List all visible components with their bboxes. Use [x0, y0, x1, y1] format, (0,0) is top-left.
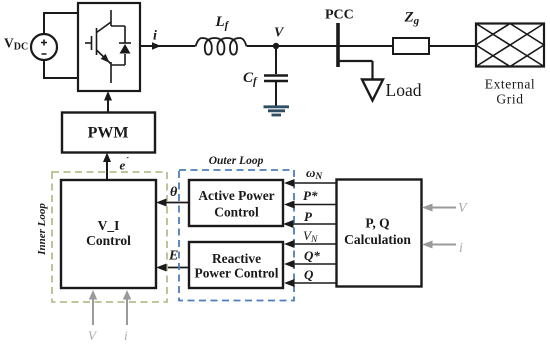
svg-text:Q: Q	[304, 267, 314, 282]
svg-text:External: External	[485, 77, 536, 92]
svg-text:Power Control: Power Control	[195, 266, 279, 281]
svg-text:Inner Loop: Inner Loop	[36, 203, 48, 256]
svg-text:P*: P*	[303, 188, 318, 203]
svg-text:Calculation: Calculation	[344, 232, 411, 247]
svg-text:Reactive: Reactive	[212, 251, 261, 266]
svg-text:Outer Loop: Outer Loop	[209, 155, 264, 167]
svg-text:P, Q: P, Q	[365, 216, 389, 231]
svg-text:Control: Control	[86, 233, 131, 248]
svg-text:θ: θ	[170, 185, 178, 200]
svg-text:V_I: V_I	[98, 218, 120, 233]
svg-text:P: P	[304, 209, 313, 224]
svg-text:E: E	[168, 249, 178, 264]
svg-text:i: i	[459, 241, 463, 256]
svg-text:Control: Control	[214, 205, 259, 220]
svg-text:Active Power: Active Power	[198, 188, 274, 203]
svg-text:i: i	[153, 29, 157, 44]
svg-text:Grid: Grid	[496, 92, 523, 107]
svg-text:PCC: PCC	[325, 8, 354, 23]
svg-text:Q*: Q*	[304, 248, 320, 263]
svg-text:i: i	[124, 328, 128, 343]
svg-text:Load: Load	[386, 80, 422, 100]
svg-text:PWM: PWM	[88, 125, 129, 142]
svg-text:V: V	[458, 201, 468, 216]
